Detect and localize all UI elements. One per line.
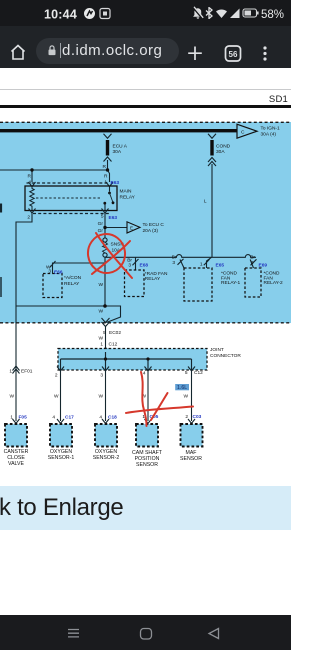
svg-text:3: 3	[251, 260, 254, 266]
svg-text:E63: E63	[109, 215, 118, 221]
svg-text:1: 1	[200, 262, 203, 268]
svg-text:E66: E66	[54, 270, 63, 276]
svg-text:L: L	[204, 199, 207, 205]
svg-text:VALVE: VALVE	[8, 461, 24, 467]
svg-text:W: W	[9, 394, 14, 400]
svg-text:RELAY: RELAY	[64, 281, 80, 287]
svg-text:3: 3	[100, 373, 103, 379]
svg-text:3: 3	[172, 260, 175, 266]
svg-text:10:44: 10:44	[44, 8, 77, 22]
svg-text:MAIN: MAIN	[120, 189, 133, 195]
svg-text:2: 2	[185, 414, 188, 420]
svg-text:1.6L: 1.6L	[177, 385, 187, 391]
svg-text:EC02: EC02	[109, 330, 121, 336]
svg-text:W: W	[98, 309, 103, 315]
svg-text:To IGN-1: To IGN-1	[261, 126, 281, 132]
svg-text:C18: C18	[108, 415, 117, 421]
svg-text:4: 4	[52, 415, 55, 421]
svg-text:C12: C12	[109, 342, 118, 348]
svg-text:RELAY: RELAY	[145, 276, 161, 282]
svg-text:4: 4	[143, 371, 146, 377]
svg-text:CONNECTOR: CONNECTOR	[210, 353, 241, 359]
svg-text:5: 5	[101, 214, 104, 220]
svg-text:R: R	[28, 174, 32, 180]
svg-text:1: 1	[100, 342, 103, 348]
svg-text:W: W	[183, 394, 188, 400]
svg-text:SENSOR: SENSOR	[180, 456, 202, 462]
svg-text:E65: E65	[216, 263, 225, 269]
svg-text:C: C	[241, 130, 245, 136]
svg-text:1: 1	[10, 415, 13, 421]
svg-text:C17: C17	[65, 415, 74, 421]
svg-text:5: 5	[185, 370, 188, 376]
svg-text:W: W	[98, 394, 103, 400]
svg-text:30A: 30A	[216, 149, 225, 155]
svg-text:SENSOR-2: SENSOR-2	[93, 455, 120, 461]
svg-text:3: 3	[48, 269, 51, 275]
svg-text:W: W	[54, 394, 59, 400]
svg-text:E63: E63	[111, 180, 120, 186]
svg-text:5: 5	[103, 330, 106, 336]
svg-text:R: R	[103, 164, 107, 170]
svg-text:RELAY-2: RELAY-2	[264, 280, 284, 286]
svg-text:20A (3): 20A (3)	[143, 228, 159, 234]
svg-text:R: R	[104, 174, 108, 180]
svg-text:C03: C03	[193, 414, 202, 420]
svg-text:SENSOR-1: SENSOR-1	[48, 455, 75, 461]
svg-text:Gr: Gr	[98, 221, 104, 227]
svg-text:SENSOR: SENSOR	[136, 462, 158, 468]
svg-text:Gr: Gr	[98, 228, 104, 234]
svg-text:W: W	[98, 336, 103, 342]
svg-text:RELAY-1: RELAY-1	[221, 280, 241, 286]
svg-text:ECU A: ECU A	[113, 144, 128, 150]
svg-text:4: 4	[28, 180, 31, 186]
svg-text:JOINT: JOINT	[210, 347, 224, 353]
svg-text:COND: COND	[216, 144, 231, 150]
svg-text:4: 4	[99, 415, 102, 421]
svg-text:30A (4): 30A (4)	[261, 132, 277, 138]
svg-text:58%: 58%	[261, 9, 284, 21]
svg-text:3: 3	[128, 263, 131, 269]
svg-text:RELAY: RELAY	[120, 195, 136, 201]
svg-text:2: 2	[55, 373, 58, 379]
svg-text:EF01: EF01	[21, 369, 33, 375]
svg-text:Br: Br	[172, 255, 177, 261]
svg-text:W: W	[98, 282, 103, 288]
svg-text:1: 1	[9, 369, 12, 375]
svg-text:56: 56	[229, 50, 238, 59]
svg-text:Br: Br	[250, 255, 255, 261]
svg-text:30A: 30A	[113, 149, 122, 155]
svg-text:C12: C12	[194, 370, 203, 376]
svg-text:E: E	[130, 226, 133, 231]
svg-text:2: 2	[27, 215, 30, 221]
svg-text:E68: E68	[140, 263, 149, 269]
svg-text:1: 1	[104, 180, 107, 186]
svg-text:E69: E69	[259, 263, 268, 269]
svg-text:To ECU C: To ECU C	[143, 222, 165, 228]
svg-text:*A/CON: *A/CON	[64, 275, 82, 281]
svg-text:F05: F05	[19, 415, 28, 421]
